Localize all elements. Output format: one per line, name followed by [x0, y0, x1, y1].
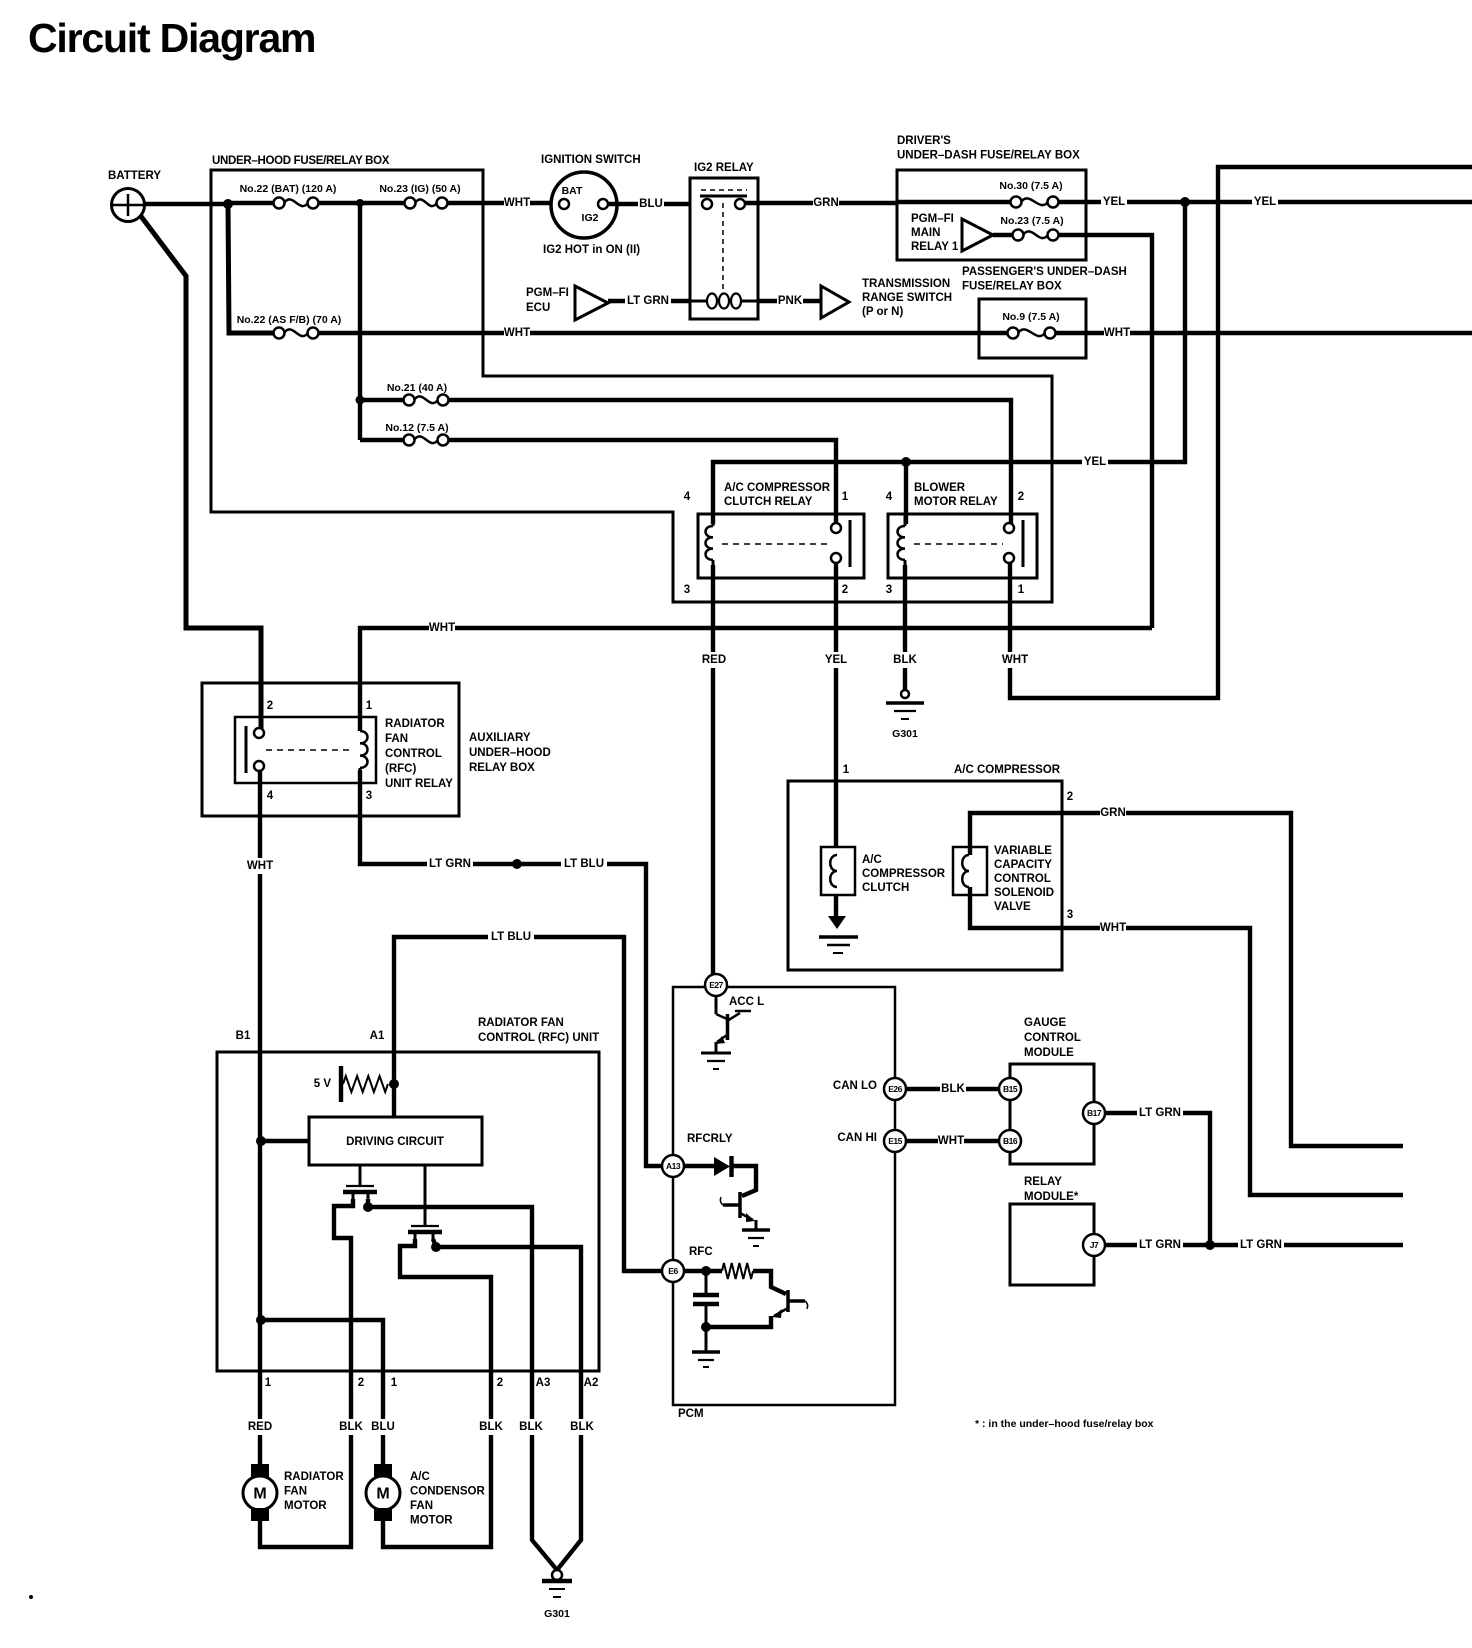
relay A/C clutch contact terminals	[831, 523, 841, 533]
relay IG2 contact bar	[700, 195, 747, 198]
svg-text:No.30 (7.5 A): No.30 (7.5 A)	[999, 180, 1062, 192]
svg-text:1: 1	[265, 1377, 272, 1389]
svg-text:CAN HI: CAN HI	[837, 1132, 877, 1144]
svg-text:RFCRLY: RFCRLY	[687, 1133, 733, 1145]
svg-text:YEL: YEL	[825, 654, 847, 666]
node fuse feed junction	[356, 199, 364, 207]
svg-text:MOTOR RELAY: MOTOR RELAY	[914, 496, 998, 508]
wire YEL rail to relay coils	[713, 202, 1185, 524]
transistor Q2 gate bar	[411, 1225, 439, 1227]
transistor Q2 stubs	[414, 1232, 417, 1240]
ignition switch body	[551, 172, 617, 238]
svg-text:B16: B16	[1003, 1136, 1018, 1146]
svg-text:BLU: BLU	[371, 1421, 395, 1433]
svg-text:IGNITION SWITCH: IGNITION SWITCH	[541, 154, 641, 166]
svg-text:MODULE: MODULE	[1024, 1047, 1074, 1059]
svg-text:GRN: GRN	[1100, 807, 1126, 819]
svg-text:CLUTCH RELAY: CLUTCH RELAY	[724, 496, 813, 508]
wire junction to blower relay pin 4	[904, 462, 908, 524]
svg-text:LT GRN: LT GRN	[1139, 1239, 1181, 1251]
svg-text:CONTROL: CONTROL	[385, 748, 442, 760]
wire ECU to IG2 relay coil, LT GRN	[608, 299, 690, 303]
radiator fan control (RFC) unit box	[217, 1052, 599, 1371]
wire B17 LT GRN down to junction	[1105, 1113, 1210, 1245]
ground (RFC filter)	[692, 1350, 720, 1354]
wire IG2 relay coil to range switch, PNK	[758, 299, 821, 303]
svg-text:No.9 (7.5 A): No.9 (7.5 A)	[1002, 311, 1059, 323]
svg-text:WHT: WHT	[1104, 327, 1130, 339]
A/C compressor clutch coil box	[821, 847, 855, 895]
wire junction down to fuse No.22 AS F/B	[228, 204, 274, 333]
svg-text:UNDER–HOOD: UNDER–HOOD	[469, 747, 551, 759]
wire WHT rail to RFC relay coil	[360, 628, 1152, 731]
relay RFC contact terminals	[254, 728, 264, 738]
passenger's under-dash fuse/relay box	[979, 299, 1086, 358]
svg-text:WHT: WHT	[1002, 654, 1028, 666]
relay A/C clutch coil	[706, 526, 714, 560]
wire A13 to diode	[684, 1164, 714, 1168]
variable capacity control solenoid valve box	[953, 847, 987, 895]
node LT GRN / LT BLU splice	[512, 859, 522, 869]
wire resistor to transistor Q4	[753, 1271, 786, 1294]
svg-text:VARIABLE: VARIABLE	[994, 845, 1052, 857]
capacitor C1 stem top	[705, 1271, 708, 1294]
transistor Q3 base stub	[723, 1203, 740, 1207]
wire LT BLU RFC signal A1 to PCM E6	[394, 937, 661, 1271]
svg-text:BLK: BLK	[519, 1421, 543, 1433]
svg-text:MODULE*: MODULE*	[1024, 1191, 1079, 1203]
svg-text:IG2: IG2	[582, 212, 599, 224]
relay RFC unit relay box	[235, 717, 376, 783]
wire B1 to driving circuit	[261, 1139, 309, 1143]
transistor Q1 gate wire	[359, 1165, 362, 1186]
svg-text:LT GRN: LT GRN	[1139, 1107, 1181, 1119]
svg-text:No.22 (AS F/B) (70 A): No.22 (AS F/B) (70 A)	[237, 314, 342, 326]
transistor Q1 channel bar	[343, 1190, 377, 1194]
wire battery ground-side diagonal feed	[140, 215, 261, 733]
node B1 to BLU branch junction	[256, 1315, 266, 1325]
svg-text:PGM–FI: PGM–FI	[911, 213, 954, 225]
wire fuse No.22 to fuse No.23	[318, 201, 405, 205]
wire E6 to RFC filter	[684, 1269, 722, 1273]
svg-text:A3: A3	[536, 1377, 551, 1389]
svg-text:* : in the under–hood fuse/rel: * : in the under–hood fuse/relay box	[975, 1418, 1154, 1430]
svg-text:BATTERY: BATTERY	[108, 170, 161, 182]
resistor R (RFC filter)	[722, 1263, 753, 1279]
wire blower relay pin 3 BLK to ground	[903, 565, 907, 690]
svg-text:UNDER–HOOD FUSE/RELAY BOX: UNDER–HOOD FUSE/RELAY BOX	[212, 155, 390, 167]
wire battery to junction	[145, 202, 228, 207]
relay blower motor relay box	[888, 514, 1037, 578]
svg-text:MOTOR: MOTOR	[284, 1500, 327, 1512]
ground G301 bars	[542, 1579, 572, 1583]
svg-text:WHT: WHT	[504, 197, 530, 209]
svg-text:GRN: GRN	[813, 197, 839, 209]
connector B15	[999, 1078, 1021, 1100]
svg-text:BLK: BLK	[339, 1421, 363, 1433]
wire Q1 drain to pin A3	[368, 1199, 557, 1570]
svg-text:PNK: PNK	[778, 295, 803, 307]
node fuse No.21 junction	[356, 396, 365, 405]
svg-text:CONTROL (RFC) UNIT: CONTROL (RFC) UNIT	[478, 1032, 599, 1044]
wire fuse No.21 to blower relay pin 2	[448, 400, 1011, 524]
wire RFC relay pin 3 LT GRN / LT BLU to PCM A13	[360, 770, 661, 1166]
svg-text:G301: G301	[892, 728, 918, 740]
node A1 resistor junction	[389, 1079, 399, 1089]
svg-text:No.12 (7.5 A): No.12 (7.5 A)	[385, 422, 448, 434]
ignition switch BAT terminal	[559, 199, 569, 209]
fuse No.22 (AS F/B)	[274, 328, 285, 339]
radiator fan motor M1	[243, 1476, 277, 1510]
svg-text:PASSENGER'S UNDER–DASH: PASSENGER'S UNDER–DASH	[962, 266, 1127, 278]
connector B16	[999, 1130, 1021, 1152]
svg-text:BLU: BLU	[639, 198, 663, 210]
transistor Q3 (RFCRLY) base bar	[738, 1192, 742, 1218]
fuse No.21 (40 A)	[404, 395, 415, 406]
svg-text:A/C COMPRESSOR: A/C COMPRESSOR	[724, 482, 831, 494]
fuse No.23 (7.5 A)	[1013, 230, 1024, 241]
wire to fuse No.21	[360, 398, 404, 402]
relay RFC contact bar	[245, 726, 248, 773]
svg-text:RELAY: RELAY	[1024, 1176, 1062, 1188]
relay RFC dashed link	[266, 749, 352, 751]
svg-text:CONTROL: CONTROL	[1024, 1032, 1081, 1044]
svg-text:A1: A1	[370, 1030, 385, 1042]
svg-text:Circuit Diagram: Circuit Diagram	[28, 15, 315, 61]
node Q1 drain junction	[363, 1202, 373, 1212]
svg-text:LT GRN: LT GRN	[627, 295, 669, 307]
connector E15	[884, 1130, 906, 1152]
wire diode to transistor collector	[733, 1166, 756, 1196]
svg-text:YEL: YEL	[1084, 456, 1106, 468]
svg-text:RADIATOR: RADIATOR	[284, 1471, 344, 1483]
svg-text:PGM–FI: PGM–FI	[526, 287, 569, 299]
connector A13	[662, 1155, 684, 1177]
svg-text:M: M	[376, 1486, 389, 1503]
relay blower dashed link	[914, 543, 1003, 545]
wire fuse No.30 YEL to right edge	[1058, 200, 1472, 204]
svg-text:COMPRESSOR: COMPRESSOR	[862, 868, 946, 880]
relay module box	[1010, 1204, 1094, 1285]
svg-text:2: 2	[1067, 791, 1073, 803]
svg-text:(P or N): (P or N)	[862, 306, 903, 318]
node RFC filter junction bottom	[701, 1322, 711, 1332]
svg-text:VALVE: VALVE	[994, 901, 1031, 913]
fuse No.12 (7.5 A)	[404, 435, 415, 446]
svg-text:LT GRN: LT GRN	[429, 858, 471, 870]
driver's under-dash fuse/relay box	[897, 170, 1086, 260]
svg-text:1: 1	[843, 764, 850, 776]
svg-text:CAN LO: CAN LO	[833, 1080, 877, 1092]
svg-text:BLK: BLK	[570, 1421, 594, 1433]
svg-text:J7: J7	[1090, 1240, 1099, 1250]
svg-text:ECU: ECU	[526, 302, 550, 314]
svg-text:4: 4	[684, 491, 691, 503]
svg-text:PCM: PCM	[678, 1408, 704, 1420]
buffer PGM-FI ECU output triangle	[575, 286, 608, 320]
relay blower contact terminals	[1004, 523, 1014, 533]
svg-text:RED: RED	[702, 654, 726, 666]
svg-text:RFC: RFC	[689, 1246, 713, 1258]
svg-text:BLK: BLK	[941, 1083, 965, 1095]
svg-text:FUSE/RELAY BOX: FUSE/RELAY BOX	[962, 281, 1062, 293]
svg-text:RADIATOR: RADIATOR	[385, 718, 445, 730]
svg-text:RADIATOR FAN: RADIATOR FAN	[478, 1017, 564, 1029]
wire blower relay pin 1 to top-right feed	[1010, 167, 1472, 698]
relay blower contact bar	[1022, 520, 1025, 567]
connector B17	[1083, 1102, 1105, 1124]
stray mark	[29, 1595, 33, 1599]
svg-text:2: 2	[358, 1377, 364, 1389]
buffer transmission range switch triangle	[821, 286, 849, 318]
svg-text:5 V: 5 V	[314, 1078, 332, 1090]
svg-text:4: 4	[267, 790, 274, 802]
svg-text:2: 2	[497, 1377, 503, 1389]
svg-text:ACC L: ACC L	[729, 996, 764, 1008]
svg-text:A2: A2	[584, 1377, 599, 1389]
svg-text:GAUGE: GAUGE	[1024, 1017, 1067, 1029]
wire main relay to fuse No.23	[993, 233, 1013, 237]
svg-text:E15: E15	[888, 1136, 902, 1146]
transistor Q1 stubs	[352, 1192, 355, 1200]
svg-text:2: 2	[1018, 491, 1024, 503]
wire B1 branch BLU to A/C condensor fan motor	[261, 1320, 383, 1465]
connector E27	[705, 974, 727, 996]
svg-text:RANGE SWITCH: RANGE SWITCH	[862, 292, 952, 304]
svg-text:2: 2	[842, 584, 848, 596]
svg-text:WHT: WHT	[504, 327, 530, 339]
svg-text:AUXILIARY: AUXILIARY	[469, 732, 531, 744]
transistor Q4 base bar	[786, 1290, 790, 1312]
wire fuse No.23 down to WHT rail	[1058, 235, 1152, 628]
svg-text:FAN: FAN	[284, 1486, 307, 1498]
wire junction to ground	[705, 1327, 708, 1351]
A/C condensor fan motor M2	[366, 1476, 400, 1510]
A/C compressor clutch coil	[830, 855, 837, 887]
svg-text:E6: E6	[668, 1266, 678, 1276]
node Q2 drain junction	[431, 1242, 441, 1252]
svg-text:IG2 RELAY: IG2 RELAY	[694, 162, 754, 174]
transistor Q4 base stub	[788, 1299, 805, 1303]
wire E26 BLK to B15	[906, 1087, 999, 1091]
svg-text:TRANSMISSION: TRANSMISSION	[862, 278, 950, 290]
ground G301 terminal	[552, 1570, 562, 1580]
wire J7 LT GRN to right edge	[1105, 1243, 1403, 1247]
svg-text:A/C: A/C	[862, 854, 882, 866]
svg-text:LT BLU: LT BLU	[564, 858, 604, 870]
svg-text:FAN: FAN	[410, 1500, 433, 1512]
relay IG2 dashed armature link	[701, 189, 747, 191]
transistor ACC L	[715, 996, 718, 1014]
svg-text:E27: E27	[709, 980, 723, 990]
svg-text:(RFC): (RFC)	[385, 763, 416, 775]
svg-text:BLK: BLK	[479, 1421, 503, 1433]
svg-text:No.23 (7.5 A): No.23 (7.5 A)	[1000, 215, 1063, 227]
relay IG2 contact terminal left	[702, 199, 712, 209]
fuse No.22 (BAT)	[274, 198, 285, 209]
resistor R (5V pull-up)	[343, 1076, 388, 1092]
ground (A/C compressor clutch)	[828, 916, 846, 929]
wire ignition to IG2 relay, BLU	[609, 202, 690, 206]
svg-text:WHT: WHT	[247, 860, 273, 872]
ground (Q3 emitter)	[742, 1228, 770, 1232]
fuse No.23 (IG)	[405, 198, 416, 209]
svg-text:DRIVING CIRCUIT: DRIVING CIRCUIT	[346, 1136, 444, 1148]
transistor Q2 gate wire	[424, 1165, 427, 1226]
node LT GRN junction	[1205, 1240, 1215, 1250]
wire feed down to fuse No.21/No.12	[358, 203, 362, 440]
svg-text:3: 3	[366, 790, 372, 802]
svg-text:BAT: BAT	[562, 185, 583, 197]
under-hood fuse/relay box outline (extends around relay area)	[211, 170, 1052, 602]
node RFC filter junction top	[701, 1266, 711, 1276]
svg-text:1: 1	[391, 1377, 398, 1389]
relay IG2 contact terminal right	[735, 199, 745, 209]
relay blower coil	[898, 526, 906, 560]
wire RFC relay pin 4 WHT down to RFC unit B1 and radiator fan motor	[258, 771, 262, 1465]
connector E26	[884, 1078, 906, 1100]
supply 5 V bar	[339, 1066, 343, 1102]
wire Q1 source to radiator fan motor BLK	[260, 1199, 353, 1547]
svg-text:B17: B17	[1087, 1108, 1102, 1118]
svg-text:SOLENOID: SOLENOID	[994, 887, 1054, 899]
svg-text:M: M	[253, 1486, 266, 1503]
svg-text:MAIN: MAIN	[911, 227, 940, 239]
capacitor C1 stem bottom	[705, 1305, 708, 1327]
svg-text:B1: B1	[236, 1030, 251, 1042]
svg-text:No.23 (IG) (50 A): No.23 (IG) (50 A)	[379, 183, 460, 195]
svg-text:CONTROL: CONTROL	[994, 873, 1051, 885]
diode D1 (RFCRLY)	[714, 1157, 730, 1176]
relay A/C clutch contact bar	[849, 520, 852, 567]
svg-text:E26: E26	[888, 1084, 902, 1094]
wire clutch relay pin 2 YEL to compressor clutch	[834, 563, 838, 848]
transistor Q4 emitter	[774, 1308, 788, 1316]
svg-text:3: 3	[886, 584, 892, 596]
connector J7	[1083, 1234, 1105, 1256]
transistor Q3 emitter	[740, 1213, 753, 1220]
relay PGM-FI main relay 1 triangle	[962, 219, 993, 251]
auxiliary under-hood relay box	[202, 683, 459, 816]
svg-text:RELAY BOX: RELAY BOX	[469, 762, 535, 774]
variable capacity control solenoid valve coil	[962, 855, 969, 887]
relay RFC coil	[360, 731, 368, 768]
wire Q2 source to A/C condensor fan motor BLK	[383, 1239, 491, 1547]
svg-text:UNDER–DASH FUSE/RELAY BOX: UNDER–DASH FUSE/RELAY BOX	[897, 150, 1080, 162]
node battery junction	[223, 199, 233, 209]
wire color labels below RFC unit	[247, 1419, 273, 1435]
wire fuse No.12 to A/C compressor clutch relay pin 1	[448, 440, 836, 524]
wire to fuse No.12	[360, 438, 404, 442]
relay IG2 box	[690, 178, 758, 319]
svg-text:YEL: YEL	[1254, 196, 1276, 208]
wire clutch coil to ground	[834, 895, 838, 917]
svg-text:IG2 HOT in ON (II): IG2 HOT in ON (II)	[543, 244, 640, 256]
wire clutch relay pin 3 RED to PCM E27	[711, 565, 715, 974]
wire fuse No.9 WHT to right edge	[1055, 331, 1472, 335]
svg-text:2: 2	[267, 700, 273, 712]
svg-text:WHT: WHT	[938, 1135, 964, 1147]
svg-text:No.22 (BAT) (120 A): No.22 (BAT) (120 A)	[240, 183, 337, 195]
svg-text:4: 4	[886, 491, 893, 503]
node YEL junction	[1180, 197, 1190, 207]
wire junction to fuse No.22	[228, 201, 274, 205]
A/C compressor box	[788, 781, 1062, 970]
ignition switch IG2 terminal	[598, 199, 608, 209]
relay A/C clutch dashed link	[722, 543, 830, 545]
svg-text:FAN: FAN	[385, 733, 408, 745]
wire Q4 emitter to junction	[706, 1316, 771, 1327]
wire E15 WHT to B16	[906, 1139, 999, 1143]
svg-text:1: 1	[1018, 584, 1025, 596]
svg-text:B15: B15	[1003, 1084, 1018, 1094]
svg-text:CLUTCH: CLUTCH	[862, 882, 909, 894]
svg-text:3: 3	[1067, 909, 1073, 921]
relay IG2 coil	[707, 294, 717, 309]
svg-text:BLK: BLK	[893, 654, 917, 666]
svg-text:WHT: WHT	[429, 622, 455, 634]
svg-text:UNIT RELAY: UNIT RELAY	[385, 778, 453, 790]
gauge control module box	[1010, 1064, 1094, 1164]
node blower coil junction	[901, 457, 911, 467]
battery B1 symbol	[112, 189, 145, 222]
node B1 to driving circuit junction	[256, 1136, 266, 1146]
svg-text:LT GRN: LT GRN	[1240, 1239, 1282, 1251]
PCM box	[673, 987, 895, 1405]
svg-text:WHT: WHT	[1100, 922, 1126, 934]
relay A/C clutch relay box	[698, 514, 864, 578]
svg-text:A/C COMPRESSOR: A/C COMPRESSOR	[954, 764, 1061, 776]
svg-text:LT BLU: LT BLU	[491, 931, 531, 943]
svg-text:A/C: A/C	[410, 1471, 430, 1483]
svg-text:MOTOR: MOTOR	[410, 1515, 453, 1527]
svg-text:YEL: YEL	[1103, 196, 1125, 208]
ground G301 (blower relay)	[901, 690, 909, 698]
wire fuse No.23 to ignition switch, WHT	[447, 201, 559, 205]
svg-text:CAPACITY: CAPACITY	[994, 859, 1052, 871]
wire WHT to passenger fuse box	[318, 331, 1008, 335]
connector E6	[662, 1260, 684, 1282]
svg-text:A13: A13	[666, 1161, 681, 1171]
fuse No.30 (7.5 A)	[1011, 197, 1022, 208]
ground (ACC L emitter)	[701, 1052, 731, 1055]
wire Q2 drain to pin A2	[433, 1239, 581, 1570]
svg-text:3: 3	[684, 584, 690, 596]
svg-text:RED: RED	[248, 1421, 272, 1433]
svg-text:RELAY 1: RELAY 1	[911, 241, 959, 253]
wire solenoid pin 2 GRN to right	[970, 813, 1403, 1146]
svg-text:DRIVER'S: DRIVER'S	[897, 135, 951, 147]
capacitor C1	[693, 1293, 719, 1297]
transistor Q2 channel bar	[408, 1230, 442, 1234]
wire solenoid pin 3 WHT to right	[970, 887, 1403, 1195]
svg-text:BLOWER: BLOWER	[914, 482, 966, 494]
svg-text:1: 1	[842, 491, 849, 503]
svg-text:CONDENSOR: CONDENSOR	[410, 1486, 485, 1498]
fuse No.9 (7.5 A)	[1008, 328, 1019, 339]
svg-text:G301: G301	[544, 1608, 570, 1620]
svg-text:1: 1	[366, 700, 373, 712]
wire IG2 relay to driver's box, GRN	[745, 201, 897, 205]
transistor Q1 gate bar	[346, 1185, 374, 1187]
svg-text:No.21 (40 A): No.21 (40 A)	[387, 382, 447, 394]
driving circuit box	[309, 1117, 482, 1165]
wire into fuse No.30	[897, 200, 1011, 204]
